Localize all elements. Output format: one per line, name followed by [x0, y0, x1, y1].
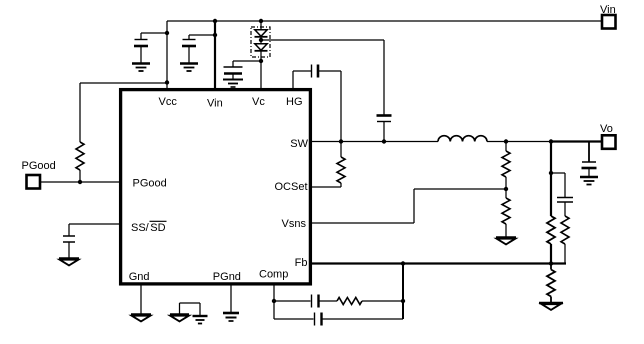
svg-text:Vcc: Vcc: [159, 96, 178, 108]
svg-text:Vin: Vin: [207, 98, 223, 110]
svg-text:OCSet: OCSet: [274, 181, 307, 193]
svg-text:Gnd: Gnd: [129, 271, 150, 283]
svg-text:Fb: Fb: [295, 257, 308, 269]
svg-text:HG: HG: [286, 96, 303, 108]
svg-text:SW: SW: [290, 138, 308, 150]
svg-text:Comp: Comp: [259, 269, 288, 281]
svg-text:Vo: Vo: [600, 123, 613, 135]
svg-text:Vsns: Vsns: [282, 218, 307, 230]
svg-text:SS/: SS/: [131, 222, 150, 234]
svg-text:PGnd: PGnd: [213, 271, 241, 283]
svg-text:Vc: Vc: [252, 96, 265, 108]
svg-text:PGood: PGood: [22, 160, 56, 172]
svg-text:SD: SD: [150, 222, 165, 234]
svg-text:PGood: PGood: [133, 178, 167, 190]
svg-text:Vin: Vin: [600, 4, 616, 16]
